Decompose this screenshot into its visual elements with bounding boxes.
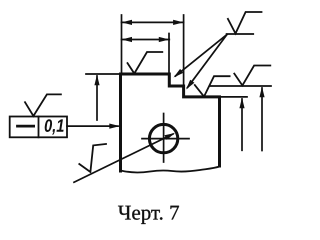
straightness symbol dash — [18, 125, 34, 128]
dimension line 2 — [122, 39, 170, 41]
roughness symbol S2 on step — [195, 76, 230, 96]
part bottom break line — [121, 167, 220, 173]
S1 leader A with arrow — [176, 35, 228, 77]
right surface extension y=96.9 — [220, 96, 248, 98]
dimension line 1 — [122, 21, 184, 23]
vertical dimension arrow right 2 — [261, 88, 263, 151]
vertical dimension arrow left — [96, 76, 98, 120]
step surface extension line y=86 — [211, 85, 272, 87]
extension line middle x=169 — [168, 34, 170, 74]
part outline — [121, 74, 220, 166]
roughness symbol S4 on frame — [25, 94, 61, 116]
part left edge — [119, 74, 122, 171]
top edge extension to left — [86, 73, 121, 75]
roughness symbol S3 on right extension — [234, 66, 270, 86]
roughness symbol S6 on top surface — [128, 52, 163, 74]
roughness symbol S1 top right — [227, 12, 262, 34]
hole horizontal centerline — [142, 138, 189, 140]
vertical dimension arrow right 1 — [241, 99, 243, 150]
extension line left x=121.5 — [121, 15, 123, 73]
caption — [118, 206, 179, 224]
hole circle — [149, 124, 177, 152]
tolerance frame divider — [38, 117, 40, 138]
roughness symbol S5 on leader — [79, 144, 106, 172]
tolerance leader arrow — [67, 125, 118, 127]
tolerance frame — [10, 117, 67, 138]
tolerance value 0,1 — [45, 119, 64, 134]
S1 leader B with arrow — [188, 35, 228, 88]
hole vertical centerline — [163, 114, 165, 163]
extension line right x=183.6 — [183, 15, 185, 85]
leader line to hole — [74, 134, 173, 182]
